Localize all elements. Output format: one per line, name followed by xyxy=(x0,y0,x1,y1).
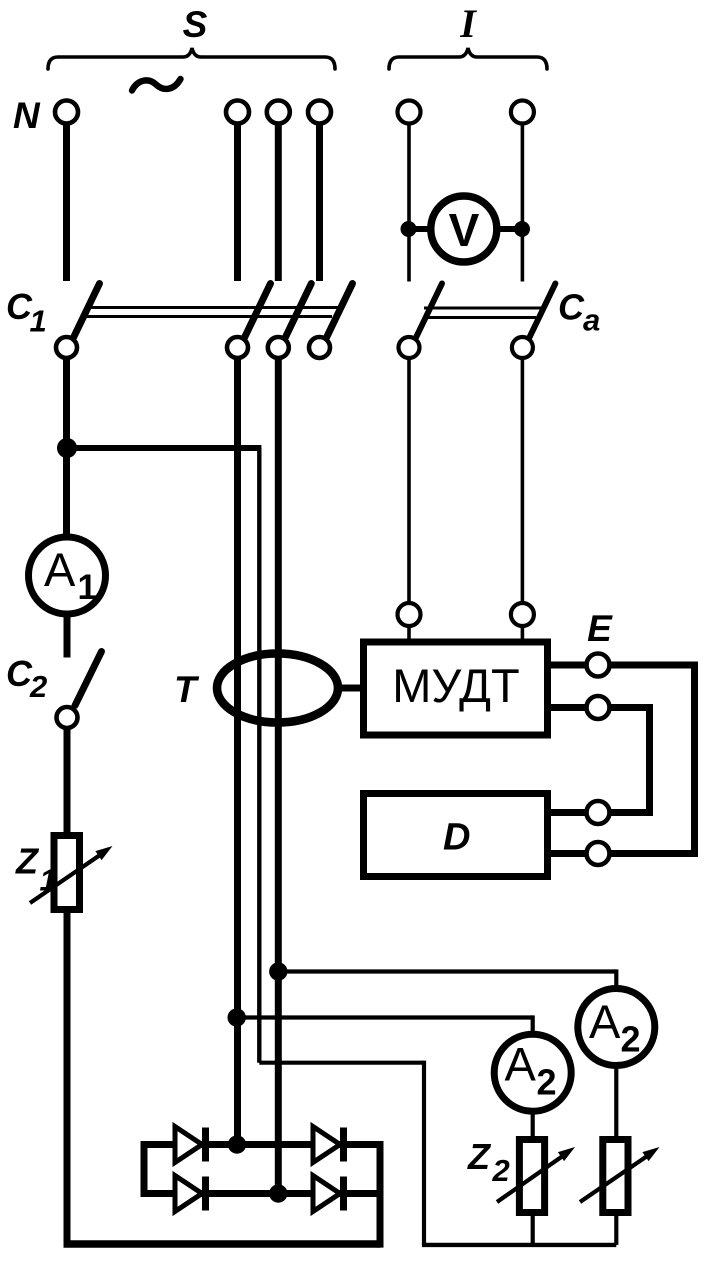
wire E1 loop down xyxy=(691,662,698,858)
terminal E2 xyxy=(587,696,610,719)
svg-text:A: A xyxy=(44,543,76,596)
svg-text:Z: Z xyxy=(467,1136,492,1177)
bridge junction dot bottom xyxy=(269,1184,287,1202)
svg-text:Z: Z xyxy=(15,841,40,882)
diode D2 (top right) xyxy=(313,1127,340,1163)
wire L1 down xyxy=(234,125,241,282)
rectifier bridge top branch xyxy=(144,1141,380,1148)
bridge junction dot top xyxy=(228,1135,246,1153)
switch Ca pole 2 blade xyxy=(529,284,555,338)
terminal L2 xyxy=(267,101,290,124)
transformer T core xyxy=(217,654,338,723)
svg-text:C: C xyxy=(558,287,585,328)
switch C1 pole 1 contact xyxy=(56,337,77,358)
terminal D1 xyxy=(587,801,610,824)
switch C1 pole 3 blade xyxy=(285,284,311,338)
diode D3 (bottom left) xyxy=(175,1176,202,1212)
switch C1 pole 2 contact xyxy=(227,337,248,358)
svg-text:2: 2 xyxy=(29,669,47,704)
switch C1 pole 3 contact xyxy=(268,337,289,358)
wire MUDT out1 xyxy=(551,662,587,669)
wire node A to ammeter A1 xyxy=(63,448,70,537)
wire Ca1 down to MUDT terminal xyxy=(407,358,411,603)
terminal I1 xyxy=(398,101,421,124)
svg-text:A: A xyxy=(589,995,621,1048)
wire Z1 to bottom rail xyxy=(64,913,71,1244)
wire loop to D lower terminal xyxy=(610,850,699,857)
node C junction dot on L1 xyxy=(228,1008,246,1026)
wire phase L2 down to bridge xyxy=(275,358,282,1194)
wire Z2 left to rail xyxy=(531,1213,535,1245)
svg-text:T: T xyxy=(174,669,200,710)
switch C2 blade xyxy=(75,652,102,706)
switch C1 pole 1 blade xyxy=(74,284,100,338)
voltmeter V xyxy=(431,196,497,262)
variable impedance Z2 right body xyxy=(603,1140,628,1213)
ac source symbol ~ xyxy=(132,79,181,91)
wire D2 to box xyxy=(551,850,587,857)
terminal N xyxy=(55,101,78,124)
variable impedance Z1 arrow xyxy=(30,855,100,903)
diode D4 (bottom right) xyxy=(313,1176,340,1212)
wire N down xyxy=(63,125,70,282)
bottom return rail right xyxy=(422,1243,616,1247)
svg-text:E: E xyxy=(587,608,613,649)
wire node A to tap xyxy=(64,445,261,451)
voltmeter V junction dot right xyxy=(514,221,530,237)
MUDT input terminal 2 xyxy=(511,603,534,626)
wire T to MUDT xyxy=(336,685,360,692)
wire N branch to node A xyxy=(63,358,70,452)
wire loop to D upper terminal xyxy=(610,809,654,816)
terminal L1 xyxy=(226,101,249,124)
bottom rail left xyxy=(64,1240,381,1247)
terminal L3 xyxy=(308,101,331,124)
node A junction dot xyxy=(57,438,77,458)
svg-text:2: 2 xyxy=(621,1019,641,1060)
wire E2 loop down xyxy=(646,704,653,816)
wire node C to A2 left xyxy=(237,1015,533,1019)
svg-text:1: 1 xyxy=(30,304,47,339)
svg-text:I: I xyxy=(459,1,477,46)
brace I xyxy=(389,48,547,69)
amplifier unit MUDT box xyxy=(364,642,548,735)
variable impedance Z2 left body xyxy=(519,1140,544,1213)
svg-text:V: V xyxy=(449,204,480,256)
svg-text:C: C xyxy=(6,653,33,694)
wire Z2 right to rail xyxy=(614,1213,618,1245)
rectifier bridge right connector xyxy=(377,1141,384,1248)
wire D1 to box xyxy=(551,809,587,816)
switch C1 pole 4 contact xyxy=(309,337,330,358)
wire I2 down xyxy=(521,125,525,282)
wire A2 right to Z2 right xyxy=(614,1066,618,1139)
switch C1 pole 2 blade xyxy=(245,284,271,338)
variable impedance Z2 right arrow xyxy=(580,1157,647,1203)
rectifier bridge bottom branch xyxy=(144,1190,380,1197)
wire L2 down xyxy=(275,125,282,282)
switch Ca pole 1 blade xyxy=(416,284,442,338)
wire control tap to return rail xyxy=(259,1061,424,1065)
wire phase L1 down to bridge xyxy=(234,358,241,1145)
rectifier bridge left connector xyxy=(141,1141,148,1197)
terminal D2 xyxy=(587,842,610,865)
variable impedance Z2 left arrow xyxy=(497,1157,562,1203)
voltmeter V lead left xyxy=(409,226,432,232)
switch C1 pole 4 blade xyxy=(327,284,353,338)
wire node B to A2 right xyxy=(278,969,616,973)
wire I1 down xyxy=(407,125,411,282)
voltmeter V lead right xyxy=(496,226,522,232)
wire tap down (control wire) xyxy=(257,448,261,1063)
terminal I2 xyxy=(511,101,534,124)
diode D1 (top left) xyxy=(175,1127,202,1163)
brace S xyxy=(48,48,335,69)
svg-text:МУДТ: МУДТ xyxy=(392,659,519,712)
svg-text:S: S xyxy=(183,4,208,45)
MUDT input terminal 1 xyxy=(398,603,421,626)
wire L3 down xyxy=(316,125,323,282)
wire A1 to switch C2 xyxy=(64,614,71,658)
wire E2 right xyxy=(610,704,654,711)
switch Ca linkage double line xyxy=(424,307,542,310)
wire E1 right xyxy=(610,662,699,669)
switch C2 contact xyxy=(57,707,78,728)
switch Ca pole 1 contact xyxy=(399,337,420,358)
ammeter A2 right xyxy=(578,989,655,1066)
svg-text:2: 2 xyxy=(537,1061,557,1102)
wire A2 left to Z2 left xyxy=(531,1111,535,1138)
svg-text:N: N xyxy=(13,95,41,136)
svg-text:2: 2 xyxy=(492,1153,510,1188)
feedback unit D box xyxy=(364,794,548,877)
switch C1 linkage double line xyxy=(86,306,344,309)
ammeter A1 xyxy=(29,537,106,614)
voltmeter V junction dot left xyxy=(401,221,417,237)
variable impedance Z1 body xyxy=(54,836,80,910)
wire Ca2 down to MUDT terminal xyxy=(521,358,525,603)
node B junction dot on L2 xyxy=(269,962,287,980)
switch Ca pole 2 contact xyxy=(512,337,533,358)
wire C2 to Z1 xyxy=(64,728,71,834)
terminal E1 xyxy=(587,654,610,677)
svg-text:a: a xyxy=(583,303,600,338)
svg-text:1: 1 xyxy=(78,568,97,607)
svg-text:A: A xyxy=(505,1038,537,1091)
ammeter A2 left xyxy=(494,1034,571,1111)
svg-text:D: D xyxy=(443,817,470,859)
wire MUDT out2 xyxy=(551,704,587,711)
